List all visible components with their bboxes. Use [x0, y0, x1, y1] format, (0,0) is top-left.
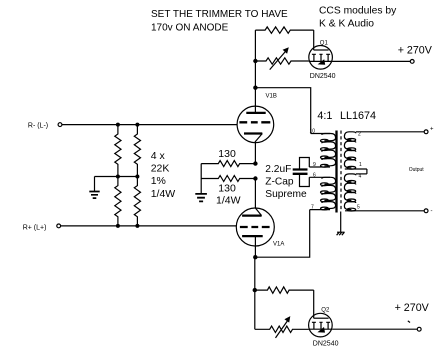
- transformer secondary winding (pins 2-1): [344, 132, 355, 169]
- transformer secondary winding (pins 4-5): [344, 174, 355, 211]
- svg-text:Z-Cap: Z-Cap: [265, 177, 294, 188]
- wire: shield to chassis ground: [340, 212, 342, 233]
- resistor 22K (lower left): [115, 177, 121, 226]
- svg-text:SET THE TRIMMER TO HAVE: SET THE TRIMMER TO HAVE: [151, 9, 288, 20]
- svg-text:1/4W: 1/4W: [216, 195, 241, 207]
- svg-text:Supreme: Supreme: [265, 189, 307, 200]
- wire: pin 4 to jumper: [356, 173, 367, 175]
- junction: 22K top rail right: [135, 123, 139, 127]
- svg-text:LL1674: LL1674: [340, 110, 376, 122]
- wire: R- input rail to V1B grid: [62, 124, 237, 126]
- resistor 22K (upper right): [134, 125, 140, 177]
- svg-text:1/4W: 1/4W: [151, 188, 176, 200]
- svg-text:170v ON ANODE: 170v ON ANODE: [151, 22, 229, 33]
- terminal: +270V (top): [410, 60, 414, 64]
- trimmer: top CCS source trimmer resistor: [255, 47, 308, 69]
- svg-text:DN2540: DN2540: [310, 73, 336, 80]
- transformer primary winding (pins 10-9): [321, 134, 336, 168]
- svg-text:4:1: 4:1: [317, 110, 332, 122]
- transformer primary winding (pins 6-7): [321, 177, 336, 210]
- svg-text:6: 6: [313, 172, 316, 178]
- trimmer: bottom CCS source trimmer resistor: [255, 316, 309, 338]
- wire: pin 6 lead: [309, 176, 330, 178]
- junction: 22K bottom rail right: [135, 224, 139, 228]
- wire: pin 5 to output - terminal: [345, 210, 424, 212]
- junction: 22K top rail left: [116, 123, 120, 127]
- wire: R+ input rail to V1A grid: [61, 225, 237, 227]
- triode V1B: [237, 106, 274, 143]
- svg-text:5: 5: [357, 205, 360, 211]
- node A: V1B anode junction: [253, 86, 257, 90]
- wire: pin 10 lead: [311, 133, 330, 135]
- svg-text:Output: Output: [409, 167, 425, 173]
- wire: Q2 drain to +270V terminal: [332, 328, 417, 330]
- junction: bottom CCS gate resistor tap: [253, 288, 257, 292]
- ground: 130R return: [195, 194, 207, 202]
- chassis ground (transformer shield): [337, 232, 345, 235]
- wire: left rail of top CCS (anode node up to gate resistor): [254, 30, 256, 88]
- wire: V1A anode node to transformer pin 7: [255, 210, 309, 258]
- wire: Q1 drain to +270V terminal: [332, 60, 410, 62]
- wire: 130R left side down to ground: [200, 164, 202, 194]
- svg-text:+ 270V: + 270V: [398, 45, 433, 57]
- svg-text:+ 270V: + 270V: [395, 302, 430, 314]
- label 2.2uF Z-Cap Supreme: [265, 164, 307, 200]
- svg-text:22K: 22K: [151, 163, 170, 175]
- wire: V1A anode to junction: [254, 236, 256, 257]
- triode V1A: [236, 208, 274, 246]
- wire: cap bottom plate to pin 6: [300, 174, 310, 187]
- svg-text:V1B: V1B: [266, 94, 277, 100]
- wire: jumper pin1-pin4: [366, 169, 368, 174]
- wire: node A down to V1B anode: [254, 88, 256, 113]
- svg-text:V1A: V1A: [273, 242, 284, 248]
- label 4 x 22K 1% 1/4W: [151, 150, 176, 200]
- wire: gate resistor down to Q1 gate: [313, 30, 315, 50]
- junction: V1A anode node: [253, 255, 257, 259]
- svg-text:-: -: [431, 209, 433, 215]
- transistor Q1 (DN2540 depletion MOSFET): [309, 46, 333, 70]
- capacitor C 2.2uF plates: [293, 170, 308, 174]
- svg-text:9: 9: [313, 162, 316, 168]
- wire: cathode chain down to V1A: [254, 179, 256, 209]
- svg-text:10: 10: [310, 129, 316, 135]
- junction: trimmer tap on left rail: [253, 59, 257, 63]
- wire: 22K midpoint to ground: [95, 176, 138, 178]
- ground: 22K midpoint: [89, 177, 99, 199]
- terminal: output +: [424, 130, 428, 134]
- svg-text:1: 1: [359, 162, 362, 168]
- junction: upper 130R on cathode chain: [253, 161, 257, 165]
- wire: pin 2 to output + terminal: [356, 131, 424, 133]
- terminal: +270V (bottom): [417, 327, 421, 331]
- svg-text:R- (L-): R- (L-): [28, 123, 48, 130]
- wire: V1B cathode down to 130R node: [254, 142, 256, 164]
- note: CCS modules text: [319, 6, 397, 30]
- wire: pin 1 to jumper: [345, 168, 367, 170]
- wire: cap top plate to pin 9: [300, 158, 310, 170]
- wire: pin 9 lead: [309, 166, 330, 168]
- junction: 22K midpoint right column: [135, 175, 139, 179]
- svg-text:K & K Audio: K & K Audio: [319, 19, 374, 30]
- transistor Q2 (DN2540 depletion MOSFET): [309, 313, 333, 337]
- svg-text:4 x: 4 x: [151, 150, 166, 162]
- junction: lower 130R on cathode chain: [253, 176, 257, 180]
- svg-text:Q1: Q1: [320, 41, 329, 47]
- svg-text:Q2: Q2: [321, 308, 330, 314]
- terminal: output -: [424, 209, 428, 213]
- svg-text:7: 7: [311, 205, 314, 211]
- wire: gate resistor down to Q2 gate: [313, 290, 315, 318]
- svg-text:2.2uF: 2.2uF: [265, 164, 291, 175]
- svg-text:DN2540: DN2540: [313, 341, 339, 348]
- transformer core: [335, 131, 337, 213]
- wire: node A to transformer pin 10: [255, 88, 310, 134]
- resistor 130 (lower): [201, 176, 255, 182]
- resistor: bottom CCS gate resistor: [255, 287, 314, 293]
- svg-text:+: +: [430, 127, 434, 133]
- junction: 22K bottom rail left: [116, 224, 120, 228]
- svg-text:R+ (L+): R+ (L+): [23, 224, 47, 231]
- wire: V1A node down to bottom CCS: [254, 257, 256, 329]
- note: trimmer setting text: [151, 9, 288, 33]
- junction: 22K midpoint left column: [116, 175, 120, 179]
- wire: pin 7 lead: [310, 209, 330, 211]
- terminal: R+ input: [57, 224, 61, 228]
- svg-text:CCS modules by: CCS modules by: [319, 6, 397, 17]
- svg-text:130: 130: [218, 183, 236, 195]
- resistor 130 (upper): [201, 161, 255, 167]
- stray tick near bottom terminal: [408, 321, 410, 323]
- resistor 22K (upper left): [115, 125, 121, 177]
- transformer shield (dashed): [340, 131, 342, 212]
- resistor 22K (lower right): [134, 177, 140, 226]
- svg-text:130: 130: [218, 148, 236, 160]
- svg-text:1%: 1%: [151, 175, 166, 187]
- resistor: top CCS gate resistor: [255, 27, 313, 33]
- terminal: R- input: [58, 123, 62, 127]
